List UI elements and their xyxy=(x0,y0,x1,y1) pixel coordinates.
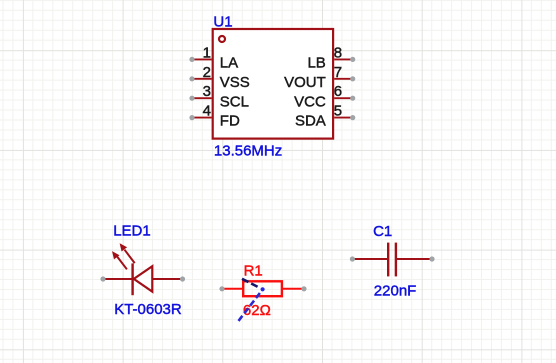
R1 left terminal dot xyxy=(219,286,224,291)
svg-text:LA: LA xyxy=(220,55,238,72)
C1 right terminal dot xyxy=(429,256,434,261)
LED1 cathode bar xyxy=(131,263,133,295)
svg-text:C1: C1 xyxy=(373,223,392,240)
svg-text:LB: LB xyxy=(307,55,325,72)
svg-text:VCC: VCC xyxy=(294,93,326,110)
dashed guide line lower segment xyxy=(239,293,260,321)
C1 right plate xyxy=(395,243,397,277)
U1 pin 7 VOUT xyxy=(284,64,355,91)
svg-text:4: 4 xyxy=(203,103,211,120)
C1 left terminal dot xyxy=(350,256,355,261)
U1 pin 1 LA xyxy=(189,44,238,71)
svg-text:LED1: LED1 xyxy=(113,222,151,239)
svg-text:VSS: VSS xyxy=(220,74,250,91)
C1 right wire xyxy=(396,258,432,260)
C1 left wire xyxy=(352,258,388,260)
svg-text:13.56MHz: 13.56MHz xyxy=(214,142,282,159)
U1 pin 3 SCL xyxy=(189,83,249,110)
svg-text:U1: U1 xyxy=(213,13,232,30)
U1 pin 8 LB xyxy=(307,44,355,71)
U1 pin 5 SDA xyxy=(295,103,355,130)
svg-text:5: 5 xyxy=(334,103,342,120)
capacitor C1 xyxy=(350,243,435,277)
LED1 emission arrow lower xyxy=(112,251,127,269)
U1 pin 6 VCC xyxy=(294,83,355,110)
R1 right wire xyxy=(282,288,305,290)
R1 right terminal dot xyxy=(301,286,306,291)
svg-text:7: 7 xyxy=(334,64,342,81)
svg-text:SDA: SDA xyxy=(295,113,326,130)
dashed guide vertex dot xyxy=(261,287,265,291)
LED1 left terminal dot xyxy=(100,276,105,281)
svg-text:220nF: 220nF xyxy=(374,282,417,299)
svg-text:KT-0603R: KT-0603R xyxy=(114,301,182,318)
svg-text:2: 2 xyxy=(203,64,211,81)
R1 left wire xyxy=(222,288,243,290)
svg-text:R1: R1 xyxy=(244,262,263,279)
svg-text:FD: FD xyxy=(220,113,240,130)
svg-text:3: 3 xyxy=(203,83,211,100)
svg-text:1: 1 xyxy=(203,44,211,61)
LED1 emission arrow upper xyxy=(120,243,135,263)
dashed guide line upper segment xyxy=(242,279,259,288)
svg-text:SCL: SCL xyxy=(220,93,249,110)
U1 pin 2 VSS xyxy=(189,64,249,91)
LED1 right wire xyxy=(152,278,182,280)
C1 left plate xyxy=(387,243,389,277)
svg-text:VOUT: VOUT xyxy=(284,74,326,91)
svg-text:8: 8 xyxy=(334,44,342,61)
U1 pin 4 FD xyxy=(189,103,240,130)
svg-text:6: 6 xyxy=(334,83,342,100)
R1 body rectangle xyxy=(243,281,282,296)
LED1 left wire xyxy=(103,278,133,280)
IC U1 body xyxy=(213,29,333,139)
LED1 right terminal dot xyxy=(180,276,185,281)
resistor R1 xyxy=(219,281,306,296)
LED1 triangle xyxy=(134,266,153,291)
LED LED1 symbol xyxy=(100,243,185,295)
